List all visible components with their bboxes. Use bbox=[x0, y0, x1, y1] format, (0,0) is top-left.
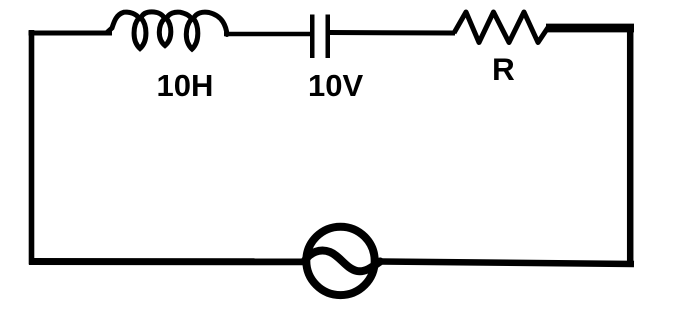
wire: bottom horizontal right segment bbox=[377, 262, 634, 265]
wire: bottom horizontal left segment bbox=[29, 258, 306, 265]
svg-text:10H: 10H bbox=[157, 68, 214, 103]
wire: left vertical bbox=[29, 30, 35, 265]
AC source V1 circle bbox=[306, 227, 374, 295]
resistor R bbox=[454, 12, 548, 43]
svg-text:R: R bbox=[492, 51, 515, 87]
inductor L1 bbox=[107, 12, 227, 49]
svg-text:10V: 10V bbox=[308, 68, 363, 103]
wire: capacitor to resistor bbox=[330, 30, 455, 36]
AC source V1 sine wave bbox=[305, 251, 380, 272]
capacitor C1 right plate bbox=[326, 15, 331, 59]
capacitor C1 left plate bbox=[310, 15, 315, 59]
wire: inductor to capacitor bbox=[224, 32, 311, 37]
wire: top-left horizontal bbox=[29, 31, 113, 36]
wire: right vertical bbox=[627, 25, 634, 266]
wire: top-right horizontal (thick) bbox=[546, 24, 634, 33]
